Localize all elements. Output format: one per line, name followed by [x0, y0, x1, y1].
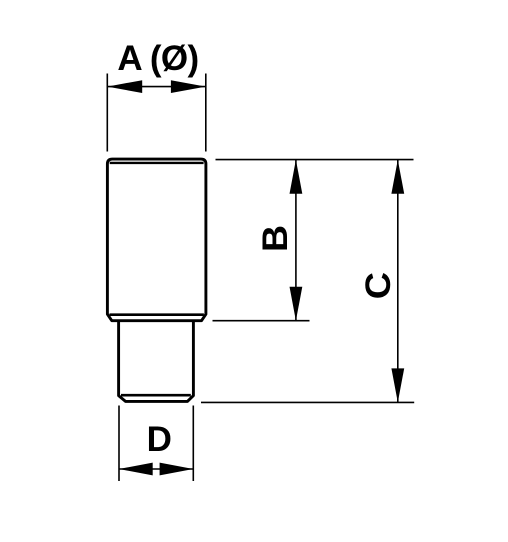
dimension D arrow left	[119, 463, 153, 476]
dimension A arrow left	[107, 80, 142, 93]
stud outline	[119, 320, 194, 402]
top shared extension line for B and C	[216, 159, 414, 161]
dimension D extension line right	[192, 406, 194, 482]
dimension C arrow up	[391, 160, 404, 194]
dimension B line	[295, 160, 297, 321]
dimension B extension line bottom	[213, 320, 310, 322]
dimension A line	[107, 86, 206, 88]
dimension D extension line left	[118, 406, 120, 482]
svg-text:B: B	[255, 225, 295, 252]
body top chamfer line	[110, 162, 204, 164]
dimension B arrow down	[290, 287, 303, 321]
svg-text:D: D	[147, 420, 172, 459]
dimension C arrow down	[391, 368, 404, 402]
dimension D line	[119, 468, 193, 470]
dimension D arrow right	[160, 463, 194, 476]
dimension A arrow right	[171, 80, 206, 93]
svg-text:A (Ø): A (Ø)	[117, 39, 198, 78]
dimension C line	[397, 160, 399, 403]
stud bottom chamfer line	[121, 394, 191, 397]
body outline	[107, 159, 205, 321]
svg-text:C: C	[358, 272, 397, 299]
dimension B arrow up	[290, 160, 303, 194]
dimension A extension line left	[106, 74, 108, 152]
dimension A extension line right	[205, 74, 207, 152]
body bottom chamfer line	[110, 313, 204, 316]
dimension C extension line bottom	[201, 401, 414, 403]
